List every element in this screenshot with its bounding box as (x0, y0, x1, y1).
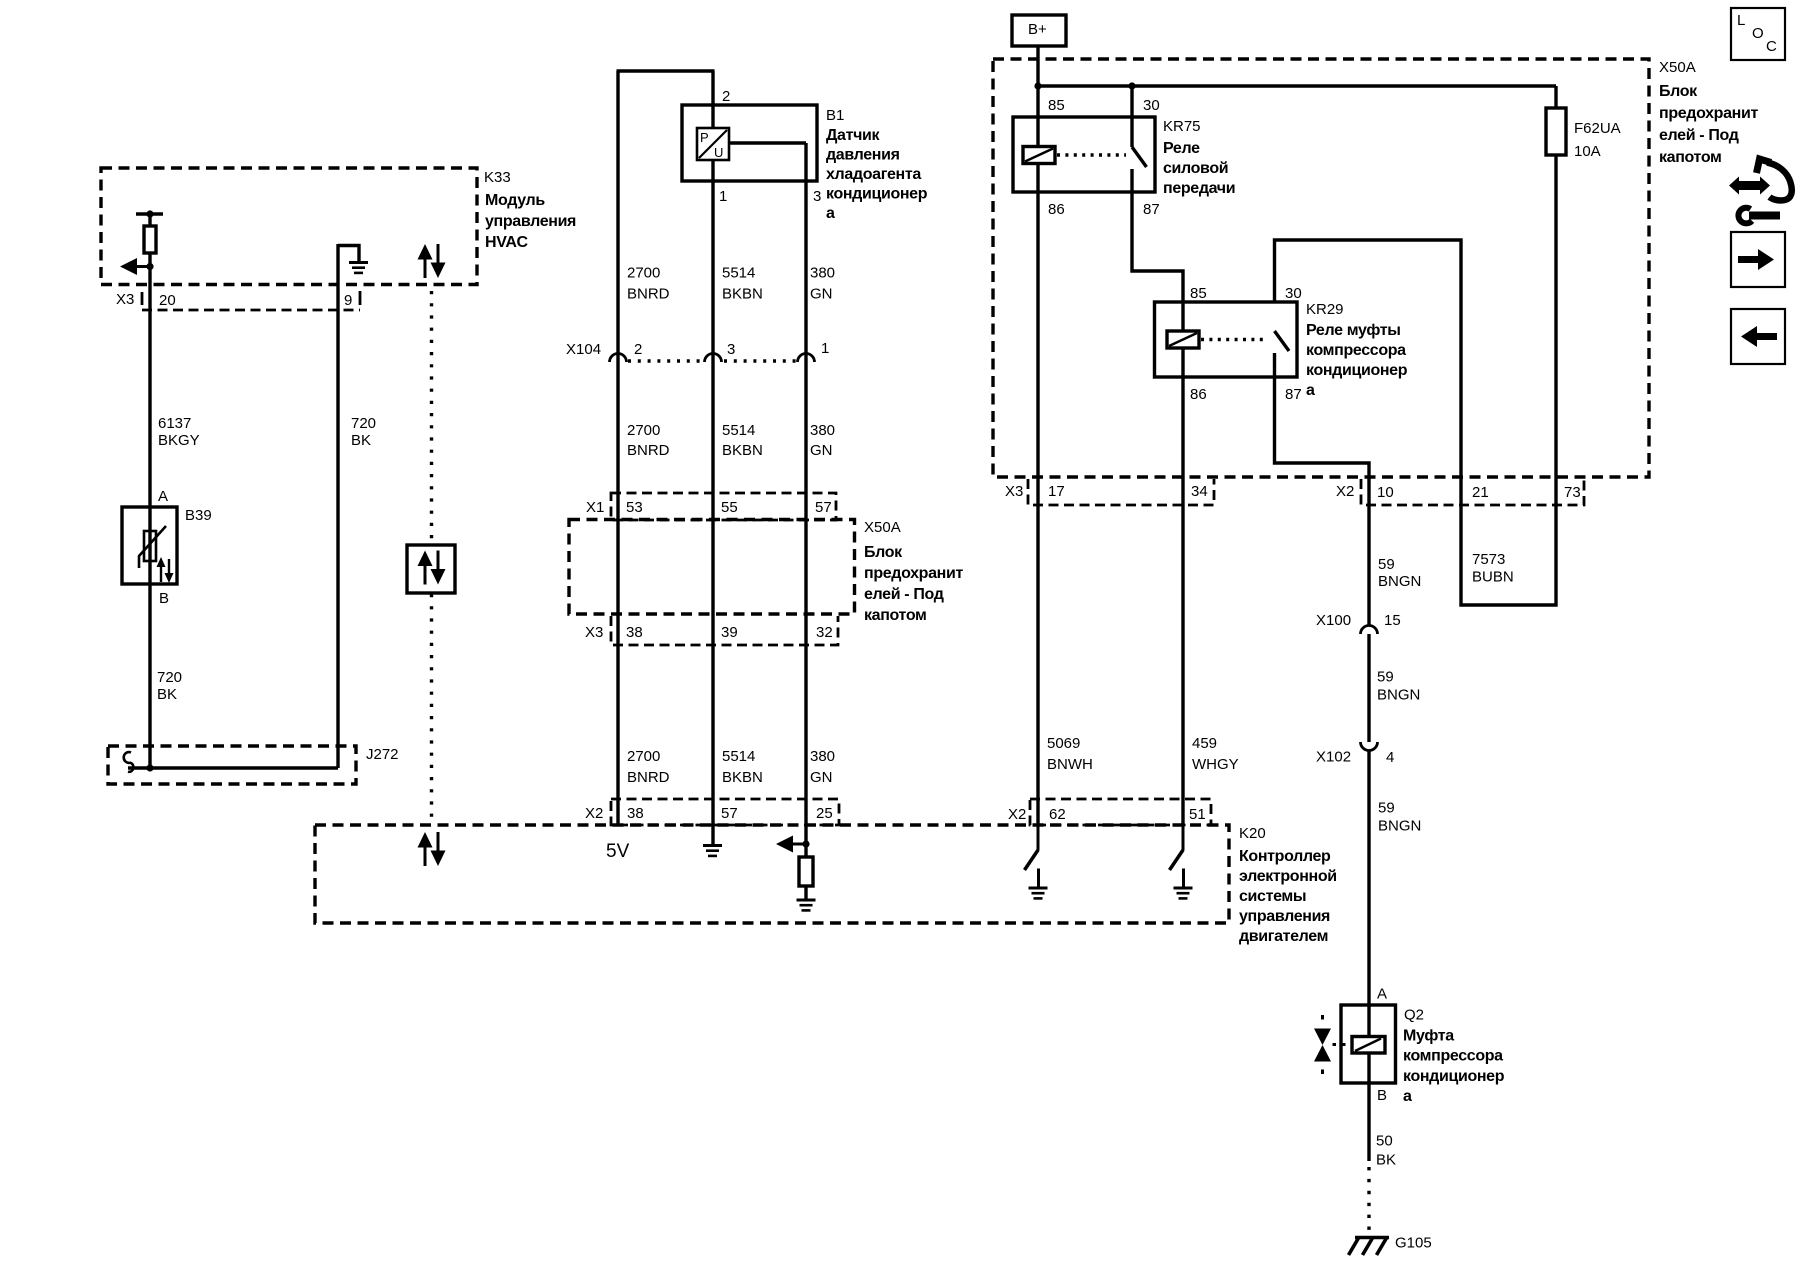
small variable arrows in B39 (157, 557, 174, 583)
ground G105 symbol (1355, 1236, 1389, 1239)
connector X2 pin box (right) (1361, 479, 1584, 505)
K33 HVAC control module box (101, 168, 477, 285)
svg-text:L: L (1737, 12, 1745, 29)
wire KR75 pin87 to KR29 pin85 (1132, 192, 1183, 331)
svg-text:электронной: электронной (1239, 868, 1337, 885)
svg-text:X102: X102 (1316, 749, 1351, 766)
wire P/U to pin3 (729, 141, 806, 144)
svg-text:J272: J272 (366, 746, 399, 763)
ground in K20 (pin57) (703, 846, 722, 856)
svg-text:BNWH: BNWH (1047, 756, 1093, 773)
svg-text:BNGN: BNGN (1377, 687, 1420, 704)
svg-text:86: 86 (1048, 201, 1065, 218)
svg-text:380: 380 (810, 265, 835, 282)
splice J272 box (108, 746, 356, 784)
svg-text:X100: X100 (1316, 612, 1351, 629)
sensor B39 box (122, 507, 177, 584)
wire left branch down to K20 pin38 (616, 71, 619, 824)
svg-text:3: 3 (813, 188, 821, 205)
svg-text:U: U (714, 145, 723, 160)
svg-text:720: 720 (157, 669, 182, 686)
svg-text:9: 9 (344, 292, 352, 309)
svg-text:BNGN: BNGN (1378, 818, 1421, 835)
node (802, 840, 809, 847)
svg-text:7573: 7573 (1472, 551, 1505, 568)
svg-text:15: 15 (1384, 612, 1401, 629)
svg-text:капотом: капотом (1659, 149, 1722, 166)
svg-text:Реле: Реле (1163, 140, 1200, 157)
dotted association line K33 to K20 (430, 291, 433, 544)
svg-text:кондиционер: кондиционер (826, 186, 928, 203)
svg-text:57: 57 (815, 499, 832, 516)
wire B1 pin2 top run (617, 69, 715, 72)
svg-text:управления: управления (485, 213, 576, 230)
svg-text:G105: G105 (1395, 1235, 1432, 1252)
svg-text:B: B (1377, 1087, 1387, 1104)
svg-text:BK: BK (351, 432, 371, 449)
arrow right legend box (1731, 232, 1785, 287)
svg-text:X3: X3 (1005, 483, 1023, 500)
svg-text:25: 25 (816, 805, 833, 822)
svg-text:2: 2 (634, 341, 642, 358)
switch to ground in K20 (pin51) (1170, 825, 1193, 898)
svg-text:предохранит: предохранит (864, 565, 963, 582)
svg-text:A: A (158, 488, 168, 505)
svg-text:Блок: Блок (1659, 83, 1698, 100)
node at resistor top (146, 210, 153, 217)
connector X3 pin box (center) (611, 616, 838, 645)
svg-text:17: 17 (1048, 483, 1065, 500)
svg-text:GN: GN (810, 442, 833, 459)
svg-text:1: 1 (821, 340, 829, 357)
P/U transducer symbol (697, 128, 729, 160)
dotted connector line (628, 359, 702, 362)
svg-text:2: 2 (722, 88, 730, 105)
wire KR29 pin87 to X2 pin10 (1275, 377, 1370, 626)
svg-text:передачи: передачи (1163, 180, 1235, 197)
svg-text:30: 30 (1143, 97, 1160, 114)
svg-text:KR75: KR75 (1163, 118, 1201, 135)
svg-text:3: 3 (727, 341, 735, 358)
wire to resistor (804, 844, 807, 899)
svg-text:86: 86 (1190, 386, 1207, 403)
node (1128, 82, 1135, 89)
connector X3 pin box (right) (1028, 479, 1214, 505)
svg-text:55: 55 (721, 499, 738, 516)
relay KR29 coil (1167, 331, 1199, 348)
relay KR29 switch lower contact (1273, 353, 1276, 377)
svg-text:X50A: X50A (1659, 59, 1696, 76)
svg-text:10A: 10A (1574, 143, 1601, 160)
svg-text:5V: 5V (606, 841, 630, 862)
svg-text:73: 73 (1564, 484, 1581, 501)
svg-text:Модуль: Модуль (485, 192, 545, 209)
svg-text:BNRD: BNRD (627, 769, 670, 786)
svg-text:BNRD: BNRD (627, 442, 670, 459)
svg-text:GN: GN (810, 769, 833, 786)
svg-text:85: 85 (1048, 97, 1065, 114)
svg-text:380: 380 (810, 422, 835, 439)
ground in K33 : hook (338, 246, 359, 263)
svg-text:GN: GN (810, 286, 833, 303)
wire B39 to J272 (148, 584, 151, 768)
svg-text:KR29: KR29 (1306, 301, 1344, 318)
svg-text:X50A: X50A (864, 519, 901, 536)
wire KR29 pin86 down to K20 pin51 (1181, 348, 1184, 825)
svg-text:BUBN: BUBN (1472, 569, 1514, 586)
svg-text:X2: X2 (1008, 806, 1026, 823)
svg-text:34: 34 (1191, 483, 1208, 500)
svg-text:HVAC: HVAC (485, 234, 529, 251)
relay KR75 dotted link (1057, 153, 1126, 156)
arrow out (left) in K20 (776, 836, 806, 853)
svg-text:62: 62 (1049, 806, 1066, 823)
ground under resistor (797, 900, 816, 910)
wire inside J272 (128, 766, 338, 769)
wire B+ down to KR75 coil (1036, 46, 1039, 825)
wire pin20 down through B39 top (148, 253, 151, 584)
bus wire B+ (1038, 84, 1556, 87)
resistor in K20 (799, 857, 813, 886)
svg-text:50: 50 (1376, 1133, 1393, 1150)
svg-text:Датчик: Датчик (826, 127, 881, 144)
svg-text:5514: 5514 (722, 748, 755, 765)
svg-text:X2: X2 (585, 805, 603, 822)
battery B+ box (1012, 15, 1066, 46)
svg-text:елей - Под: елей - Под (864, 586, 944, 603)
svg-text:а: а (826, 205, 835, 222)
wire bus to KR75 switch (1130, 86, 1133, 147)
svg-text:BKBN: BKBN (722, 442, 763, 459)
double-arrow box on dotted line (407, 545, 455, 593)
wire B1 pin1 down to K20 pin57 (711, 71, 714, 845)
relay KR29 dotted link (1201, 338, 1268, 341)
svg-text:BNGN: BNGN (1378, 573, 1421, 590)
svg-text:87: 87 (1143, 201, 1160, 218)
wire KR29 pin30 to fuse F62UA loop (1275, 86, 1557, 605)
svg-text:38: 38 (627, 805, 644, 822)
svg-text:B+: B+ (1028, 21, 1047, 38)
svg-text:давления: давления (826, 147, 900, 164)
svg-text:BNRD: BNRD (627, 286, 670, 303)
connector X100 arc (1361, 626, 1378, 635)
svg-text:85: 85 (1190, 285, 1207, 302)
svg-text:кондиционер: кондиционер (1403, 1068, 1505, 1085)
mechanical clutch symbol (1314, 1015, 1346, 1074)
relay KR75 box (1013, 117, 1155, 192)
fuse block X50A (center) box (569, 520, 855, 615)
svg-text:380: 380 (810, 748, 835, 765)
svg-text:управления: управления (1239, 908, 1330, 925)
svg-text:кондиционер: кондиционер (1306, 362, 1408, 379)
connector X104 arc pin3 (705, 354, 722, 363)
relay KR75 switch blade (1132, 147, 1147, 167)
svg-text:Реле муфты: Реле муфты (1306, 322, 1401, 339)
wire B1 pin3 down to K20 pin25 (804, 143, 807, 844)
dotted wire to G105 (1367, 1167, 1370, 1235)
svg-text:1: 1 (719, 188, 727, 205)
svg-text:предохранит: предохранит (1659, 105, 1758, 122)
svg-text:6137: 6137 (158, 415, 191, 432)
svg-text:59: 59 (1377, 669, 1394, 686)
svg-text:X3: X3 (585, 624, 603, 641)
svg-text:4: 4 (1386, 749, 1394, 766)
svg-text:10: 10 (1377, 484, 1394, 501)
svg-text:BK: BK (1376, 1152, 1396, 1169)
svg-text:хладоагента: хладоагента (826, 166, 921, 183)
svg-text:59: 59 (1378, 800, 1395, 817)
svg-text:21: 21 (1472, 484, 1489, 501)
wire (148, 214, 151, 226)
svg-text:32: 32 (816, 624, 833, 641)
connector X104 arc pin2 (610, 354, 627, 363)
svg-text:капотом: капотом (864, 607, 927, 624)
ground in K33 : bars (349, 263, 368, 273)
switch to ground in K20 (pin62) (1025, 825, 1048, 898)
svg-text:BKBN: BKBN (722, 286, 763, 303)
svg-text:39: 39 (721, 624, 738, 641)
svg-text:2700: 2700 (627, 422, 660, 439)
node (146, 263, 153, 270)
svg-text:компрессора: компрессора (1403, 1048, 1503, 1065)
relay KR29 switch blade (1275, 331, 1290, 351)
svg-text:2700: 2700 (627, 748, 660, 765)
Q2 coil (1352, 1037, 1385, 1054)
harness routing icon (1729, 159, 1792, 223)
ECM K20 box (315, 825, 1229, 923)
svg-text:459: 459 (1192, 735, 1217, 752)
svg-text:K20: K20 (1239, 825, 1266, 842)
svg-text:компрессора: компрессора (1306, 342, 1406, 359)
svg-text:BKGY: BKGY (158, 432, 200, 449)
connector X3 pin box of K33 (141, 292, 144, 305)
arrow left legend box (1731, 309, 1785, 364)
splice curl symbol (124, 752, 134, 772)
svg-text:а: а (1403, 1088, 1412, 1105)
svg-text:BK: BK (157, 686, 177, 703)
svg-text:38: 38 (626, 624, 643, 641)
wire X102 to Q2 (1367, 751, 1370, 1162)
resistor in K33 : top bar (136, 212, 163, 215)
svg-text:F62UA: F62UA (1574, 120, 1621, 137)
svg-text:Контроллер: Контроллер (1239, 848, 1331, 865)
LOC legend box (1731, 8, 1785, 60)
svg-text:5514: 5514 (722, 422, 755, 439)
svg-text:720: 720 (351, 415, 376, 432)
svg-text:B1: B1 (826, 107, 844, 124)
svg-text:5514: 5514 (722, 265, 755, 282)
thermistor diagonal (139, 526, 166, 568)
svg-text:A: A (1377, 986, 1387, 1003)
svg-text:B39: B39 (185, 507, 212, 524)
svg-text:59: 59 (1378, 556, 1395, 573)
svg-text:C: C (1766, 38, 1777, 55)
resistor in K33 : body (144, 226, 156, 253)
svg-text:X2: X2 (1336, 483, 1354, 500)
svg-text:WHGY: WHGY (1192, 756, 1239, 773)
svg-text:X1: X1 (586, 499, 604, 516)
svg-text:BKBN: BKBN (722, 769, 763, 786)
svg-text:O: O (1752, 25, 1764, 42)
fuse block X50A (right) box (993, 59, 1649, 477)
svg-text:Q2: Q2 (1404, 1007, 1424, 1024)
svg-text:57: 57 (721, 805, 738, 822)
svg-text:B: B (159, 590, 169, 607)
sensor B1 box (682, 105, 817, 181)
svg-text:P: P (700, 130, 709, 145)
svg-text:системы: системы (1239, 888, 1306, 905)
svg-text:елей - Под: елей - Под (1659, 127, 1739, 144)
connector X2 pin box (K20 left) (611, 799, 839, 825)
svg-text:Блок: Блок (864, 544, 903, 561)
double-arrow signal symbol in K20 (418, 832, 446, 866)
wire pin9 down to J272 (336, 244, 339, 768)
svg-text:X3: X3 (116, 291, 134, 308)
svg-text:2700: 2700 (627, 265, 660, 282)
node (1034, 82, 1041, 89)
relay KR75 coil (1023, 147, 1055, 164)
double-arrow signal symbol in K33 (418, 244, 446, 278)
svg-text:30: 30 (1285, 285, 1302, 302)
svg-text:5069: 5069 (1047, 735, 1080, 752)
svg-text:X104: X104 (566, 341, 601, 358)
connector X1 pin box (611, 493, 836, 520)
node in J272 (146, 764, 153, 771)
fuse F62UA body (1546, 108, 1566, 155)
thermistor body in B39 (144, 531, 156, 561)
svg-text:K33: K33 (484, 169, 511, 186)
relay KR29 box (1155, 302, 1298, 377)
svg-text:87: 87 (1285, 386, 1302, 403)
connector X102 arc (1361, 742, 1378, 751)
svg-text:20: 20 (159, 292, 176, 309)
svg-text:Муфта: Муфта (1403, 1028, 1454, 1045)
svg-text:двигателем: двигателем (1239, 928, 1328, 945)
wire X100 to X102 (1367, 634, 1370, 742)
svg-text:силовой: силовой (1163, 160, 1228, 177)
connector X104 arc pin1 (798, 354, 815, 363)
arrow out (left) in K33 (120, 258, 150, 275)
clutch Q2 box (1341, 1005, 1396, 1083)
connector X2 pin box (K20 right) (1030, 799, 1211, 825)
svg-text:а: а (1306, 382, 1315, 399)
relay KR75 switch lower contact (1130, 169, 1133, 192)
svg-text:51: 51 (1189, 806, 1206, 823)
svg-text:53: 53 (626, 499, 643, 516)
